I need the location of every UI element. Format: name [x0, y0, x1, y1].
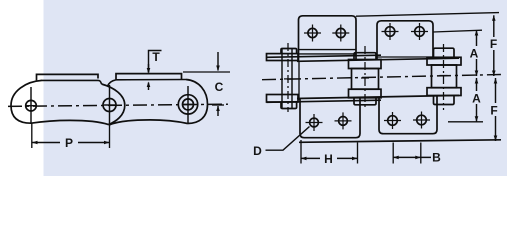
- chain centerline (side view): [8, 104, 228, 106]
- pin 3 top head: [434, 48, 455, 57]
- svg-text:D: D: [253, 144, 262, 158]
- pin 2 bottom head: [354, 98, 376, 105]
- svg-text:C: C: [215, 80, 224, 94]
- link plate 2 bottom edge: [110, 120, 188, 125]
- dimension F top: [493, 15, 495, 37]
- dimension A top: [476, 30, 478, 46]
- pin 1 bottom washer bar: [267, 95, 299, 103]
- pin 2 centerline: [364, 46, 366, 110]
- pin 2 bottom washer: [349, 89, 382, 98]
- dimension F bottom: [495, 78, 497, 103]
- top outer plate edge: [267, 55, 382, 57]
- link plate 1 bottom edge: [31, 120, 109, 124]
- page background: [0, 0, 507, 176]
- svg-text:T: T: [152, 50, 160, 64]
- attachment plate 2 top: [377, 21, 433, 60]
- dimension T bracket: [149, 51, 162, 73]
- dimension H line: [301, 157, 320, 159]
- chain centerline (top view): [262, 75, 502, 80]
- dimension A bottom: [476, 78, 478, 91]
- svg-text:F: F: [490, 104, 497, 118]
- plate 2 hole b: [415, 27, 425, 37]
- pin 1 cross tick: [284, 78, 293, 80]
- pin 1 bottom head: [281, 102, 297, 109]
- top F extension line (from plate 1 top): [356, 13, 499, 17]
- link plate 1 top dip to pin 2: [98, 80, 102, 84]
- bottom A extension line (holes): [448, 121, 483, 123]
- dimension P extension lines: [31, 123, 33, 148]
- svg-text:B: B: [432, 151, 441, 165]
- attachment strip on link 2: [116, 74, 182, 80]
- plate 2 hole a: [385, 27, 395, 37]
- svg-text:A: A: [472, 92, 481, 106]
- pin 1 shaft: [281, 49, 283, 109]
- pin 3 bottom head: [434, 96, 455, 105]
- svg-text:P: P: [65, 136, 73, 150]
- plate 2 fold line: [377, 56, 433, 58]
- pin 1 top washer bar: [267, 54, 299, 61]
- attachment strip on link 1: [37, 74, 99, 80]
- dimension C bottom arrow: [217, 106, 219, 116]
- svg-text:A: A: [470, 47, 479, 61]
- pin 1 top head: [281, 49, 297, 54]
- pin 2 top washer: [349, 60, 382, 69]
- plate 2 bottom hole a: [388, 116, 398, 126]
- pin 1: [26, 100, 37, 111]
- pin 3 cross tick: [440, 75, 448, 77]
- dimension B extension lines: [392, 143, 394, 164]
- dimension B line: [393, 156, 431, 158]
- dimension C top arrow: [217, 52, 219, 71]
- link 1 right end arc around pin 2: [102, 84, 125, 125]
- attachment plate 1 top: [299, 16, 357, 61]
- plate 1 hole b: [336, 28, 345, 37]
- svg-text:H: H: [324, 152, 333, 166]
- link plate 1 top edge: [42, 79, 98, 81]
- link plate 1 left end: [11, 80, 42, 123]
- dimension C bottom tick: [212, 104, 224, 106]
- pin 1 centerline: [287, 43, 289, 112]
- plate 1 hole a: [308, 28, 317, 37]
- top A extension line (holes): [433, 30, 482, 32]
- pin 2 top head: [354, 53, 376, 60]
- bottom inner plate edge: [297, 95, 459, 98]
- plate 2 bottom hole b: [417, 115, 427, 125]
- pin 3 centerline: [443, 44, 445, 110]
- link plate 2 top edge: [116, 79, 187, 81]
- svg-text:F: F: [490, 37, 497, 51]
- link 2 right end: [186, 80, 208, 124]
- attachment plate 2 bottom: [379, 96, 437, 134]
- pin 2: [103, 99, 116, 112]
- pin 2 roller: [352, 69, 379, 90]
- long bottom reference line: [299, 140, 501, 143]
- dimension T lower arrow: [148, 83, 150, 91]
- attachment side edge line: [298, 61, 300, 100]
- link 2 valley wall: [108, 80, 116, 86]
- white margin strip: [0, 0, 44, 176]
- top inner plate edge: [297, 58, 459, 61]
- dimension C top extension line: [183, 71, 230, 73]
- pin 3 (with roller): [183, 99, 194, 110]
- pin 3 roller: [432, 65, 457, 88]
- pin 2 cross tick: [361, 77, 369, 79]
- attachment plate 1 bottom: [300, 98, 360, 138]
- dimension H extension lines: [300, 140, 302, 164]
- plate 1 fold line: [299, 49, 357, 51]
- bottom outer plate edge: [267, 100, 382, 102]
- dimension P line with arrows: [32, 142, 60, 144]
- pin 3 top washer: [427, 57, 461, 65]
- plate 1 bottom hole a: [310, 118, 319, 127]
- pin 3 bottom washer: [427, 88, 461, 96]
- dimension D leader: [266, 127, 310, 151]
- plate 1 bottom hole b: [339, 117, 348, 126]
